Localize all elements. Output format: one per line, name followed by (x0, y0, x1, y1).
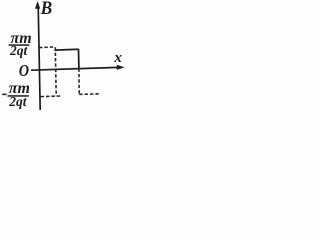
x axis (horizontal axis line) (31, 67, 119, 70)
dashed vertical at pulse start x0 (54, 47, 57, 96)
svg-text:2qt: 2qt (8, 94, 28, 109)
background (0, 0, 125, 131)
top edge of positive pulse (solid) (54, 48, 78, 51)
minus sign (2, 94, 6, 96)
bottom dashed edge of negative pulse (79, 93, 100, 96)
origin label O (19, 62, 29, 80)
bottom dashed reference line from axis at -pi m/2qt level (41, 95, 61, 98)
bottom fraction label -pi m / 2qt (2, 80, 30, 109)
B axis label (40, 0, 53, 18)
x axis arrowhead (117, 65, 125, 70)
B axis (vertical axis line) (38, 6, 40, 110)
fraction bar (9, 44, 30, 46)
top dashed reference line at +pi m/2qt level (39, 46, 54, 49)
svg-text:x: x (113, 50, 122, 66)
top fraction label pi m / 2qt (9, 30, 32, 58)
B axis arrowhead (35, 1, 40, 9)
svg-text:B: B (40, 0, 53, 18)
dashed falling edge continuation below axis (78, 69, 80, 95)
svg-text:O: O (19, 62, 29, 80)
fraction bar (8, 95, 29, 97)
svg-text:2qt: 2qt (9, 43, 29, 58)
solid falling edge at x1 (above axis) (78, 49, 80, 69)
